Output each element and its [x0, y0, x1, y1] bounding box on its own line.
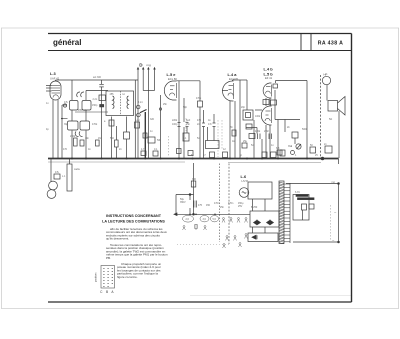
svg-text:qu'ils desservent.: qu'ils desservent.: [106, 237, 129, 241]
svg-text:a.v.c: a.v.c: [135, 119, 141, 122]
svg-text:PB.: PB.: [106, 256, 111, 260]
svg-text:25µ: 25µ: [243, 140, 248, 143]
svg-text:D: D: [139, 62, 143, 67]
svg-text:47: 47: [203, 154, 206, 157]
svg-text:8µF: 8µF: [186, 119, 191, 122]
svg-text:25n: 25n: [163, 103, 168, 106]
svg-text:L.3: L.3: [50, 71, 56, 76]
svg-text:LS 51: LS 51: [242, 179, 250, 183]
svg-text:tp: tp: [240, 154, 243, 157]
svg-text:47n: 47n: [208, 123, 213, 126]
svg-text:1k: 1k: [88, 148, 91, 151]
svg-text:25: 25: [315, 154, 318, 157]
svg-text:455: 455: [110, 93, 115, 96]
svg-text:20p: 20p: [241, 106, 246, 109]
svg-text:12: 12: [223, 148, 226, 151]
svg-text:450: 450: [206, 204, 211, 207]
svg-text:ECH 81: ECH 81: [229, 77, 239, 81]
svg-text:5,6: 5,6: [213, 218, 217, 221]
svg-text:positions: positions: [95, 272, 98, 282]
svg-text:L.4 a: L.4 a: [228, 72, 238, 77]
svg-text:C B A: C B A: [100, 290, 115, 294]
svg-text:47k: 47k: [55, 171, 60, 174]
svg-text:50: 50: [310, 144, 313, 147]
svg-text:2,6: 2,6: [186, 218, 190, 221]
svg-text:2x: 2x: [324, 143, 327, 146]
svg-text:220k: 220k: [172, 119, 178, 122]
svg-text:320: 320: [150, 118, 155, 121]
svg-text:470k: 470k: [92, 123, 98, 126]
svg-text:100k: 100k: [255, 115, 261, 118]
svg-text:470k: 470k: [196, 97, 202, 100]
svg-text:général: général: [53, 38, 81, 47]
svg-text:cadre: cadre: [74, 168, 81, 171]
svg-text:~: ~: [334, 210, 337, 215]
svg-text:1n: 1n: [271, 144, 274, 147]
svg-text:25V: 25V: [238, 205, 243, 208]
svg-text:220k: 220k: [70, 135, 76, 138]
svg-text:470n: 470n: [214, 202, 220, 205]
svg-text:475: 475: [198, 204, 203, 207]
svg-text:mg: mg: [147, 63, 151, 67]
svg-text:0.1: 0.1: [154, 148, 158, 151]
svg-text:1M: 1M: [98, 137, 101, 140]
svg-text:5Ω: 5Ω: [329, 118, 332, 121]
svg-text:2k: 2k: [287, 126, 290, 129]
svg-text:kc: kc: [123, 93, 126, 96]
svg-text:L.5 e: L.5 e: [167, 72, 177, 77]
svg-text:RA 438 A: RA 438 A: [318, 41, 344, 47]
svg-text:Vol: Vol: [288, 144, 293, 148]
svg-text:4p: 4p: [46, 128, 49, 131]
svg-text:150p: 150p: [92, 104, 98, 107]
svg-text:LA LECTURE DES COMMUTATIONS: LA LECTURE DES COMMUTATIONS: [102, 220, 165, 224]
svg-text:6.3V: 6.3V: [295, 191, 300, 194]
svg-text:figure ci-contre.: figure ci-contre.: [117, 275, 138, 279]
svg-text:2M2: 2M2: [264, 130, 269, 133]
svg-text:25n: 25n: [186, 123, 191, 126]
svg-text:1k: 1k: [208, 119, 211, 122]
svg-text:ant 300: ant 300: [93, 76, 102, 79]
svg-text:50k: 50k: [157, 139, 162, 142]
svg-text:2.2n: 2.2n: [93, 98, 98, 101]
svg-text:HP: HP: [324, 73, 328, 77]
svg-text:10n: 10n: [85, 137, 90, 140]
svg-text:455 kc/s: 455 kc/s: [78, 109, 88, 112]
svg-text:UAF 42: UAF 42: [50, 77, 60, 81]
svg-text:L.1: L.1: [62, 175, 66, 178]
svg-text:6.3: 6.3: [276, 147, 280, 150]
svg-text:470k: 470k: [255, 130, 261, 133]
svg-text:470n: 470n: [228, 202, 234, 205]
svg-text:8µ: 8µ: [191, 154, 194, 157]
svg-text:L.6: L.6: [241, 174, 247, 179]
svg-text:5k6: 5k6: [110, 137, 115, 140]
svg-text:500k: 500k: [302, 128, 308, 131]
svg-text:EF 41: EF 41: [265, 76, 273, 80]
svg-text:350: 350: [192, 178, 197, 181]
svg-text:ECL 80: ECL 80: [168, 77, 177, 81]
svg-text:470: 470: [63, 148, 68, 151]
svg-text:0.1: 0.1: [183, 137, 187, 140]
svg-text:INSTRUCTIONS CONCERNANT: INSTRUCTIONS CONCERNANT: [106, 214, 162, 218]
svg-text:1n: 1n: [46, 102, 49, 105]
svg-text:4 int: 4 int: [138, 101, 143, 104]
svg-text:100p: 100p: [172, 123, 178, 126]
svg-text:47k: 47k: [64, 101, 69, 104]
svg-text:25n: 25n: [220, 206, 225, 209]
svg-text:B 250: B 250: [251, 206, 258, 209]
svg-text:3,6: 3,6: [203, 218, 207, 221]
svg-text:4.7n: 4.7n: [141, 148, 146, 151]
svg-text:50p: 50p: [183, 106, 188, 109]
svg-text:même temps que la galette PM1: même temps que la galette PM1 par le bou…: [106, 253, 168, 257]
svg-text:350V: 350V: [180, 201, 186, 204]
svg-text:1n: 1n: [150, 130, 153, 133]
svg-text:470: 470: [197, 119, 202, 122]
svg-text:a: a: [104, 120, 106, 123]
svg-text:2n: 2n: [119, 148, 122, 151]
svg-text:6h: 6h: [230, 126, 233, 129]
svg-text:L.5 b: L.5 b: [264, 72, 274, 77]
svg-text:39p: 39p: [64, 123, 69, 126]
svg-text:1: 1: [295, 154, 297, 157]
